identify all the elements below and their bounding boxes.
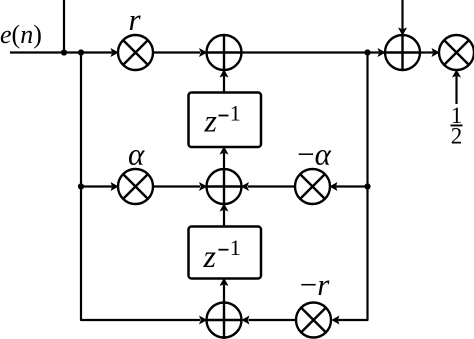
arrowhead into M5 from right: [331, 316, 339, 325]
svg-text:−α: −α: [297, 137, 331, 172]
arrowhead into A2 from left: [378, 48, 386, 57]
wire A1 to adder A2: [242, 51, 380, 53]
svg-text:1: 1: [230, 235, 241, 260]
wire delay box Z1 output up to A1: [223, 76, 225, 93]
junction dot on input line at top stub: [61, 49, 67, 55]
wire multiplier M4 to adder A3: [248, 185, 295, 187]
wire right feed vertical from top junction down to bottom row: [337, 53, 368, 321]
svg-text:z: z: [203, 238, 217, 274]
svg-text:−r: −r: [300, 267, 330, 302]
arrowhead into A4 from right: [241, 316, 249, 325]
adder A1: [207, 35, 242, 70]
junction dot on right feed at middle row: [364, 183, 370, 189]
multiplier M4 (gain -alpha): [295, 169, 330, 204]
wire right feed branch into multiplier M4: [336, 185, 368, 187]
value label z^-1 in delay box Z2: [203, 235, 241, 274]
wire 1/2 constant into M2 bottom: [455, 76, 457, 104]
wire left feed branch into multiplier M3: [81, 185, 112, 187]
delay box Z2 (z^-1 lower): [189, 227, 262, 279]
wire multiplier M5 to adder A4: [249, 319, 296, 321]
wire M1 to adder A1: [153, 51, 200, 53]
arrowhead into delay Z2 from bottom: [220, 278, 229, 286]
svg-text:2: 2: [451, 124, 463, 149]
arrowhead into M1: [111, 48, 119, 57]
wire vertical from top into A2: [401, 0, 403, 29]
delay box Z1 (z^-1 upper): [189, 93, 262, 148]
arrowhead into A3 from bottom (delay Z2 output): [220, 203, 229, 211]
arrowhead into A2 from top: [398, 28, 407, 36]
wire adder A4 output up to delay box Z2: [223, 285, 225, 303]
arrowhead into M4 from right: [329, 182, 337, 191]
value label z^-1 in delay box Z1: [204, 101, 241, 139]
arrowhead into A1 from bottom (delay Z1 output): [220, 69, 229, 77]
junction dot on top line at right feed: [364, 49, 370, 55]
wire A2 to multiplier M2: [421, 51, 434, 53]
adder A4: [207, 303, 242, 339]
wire adder A3 output up to delay box Z1: [223, 153, 225, 169]
svg-text:z: z: [204, 103, 218, 139]
multiplier M1 (gain r): [118, 35, 153, 70]
adder A2: [385, 35, 420, 70]
arrowhead into delay Z1 from bottom: [220, 146, 229, 154]
multiplier M5 (gain -r): [296, 303, 331, 338]
adder A3: [207, 169, 242, 204]
svg-text:1: 1: [230, 101, 241, 126]
arrowhead into A3 from left: [199, 182, 207, 191]
wire input horizontal e(n) to multiplier M1: [10, 51, 112, 53]
arrowhead into M2 from bottom: [452, 69, 461, 77]
arrowhead into A4 from left: [199, 316, 207, 325]
junction dot on left feed at middle row: [78, 183, 84, 189]
arrowhead into A3 from right: [241, 182, 249, 191]
arrowhead into A1 from left: [199, 48, 207, 57]
svg-text:α: α: [128, 137, 145, 172]
wire delay box Z2 output up to A3: [223, 210, 225, 227]
junction dot on input line at left feed: [78, 49, 84, 55]
wire left feed vertical from input junction down to bottom row: [81, 53, 200, 321]
arrowhead into M2 from left: [432, 48, 440, 57]
multiplier M3 (gain alpha): [118, 169, 153, 204]
wire top stub vertical into input line: [63, 0, 65, 53]
value label 1/2 fraction bar: [451, 125, 463, 127]
arrowhead into M3: [111, 182, 119, 191]
multiplier M2 (gain 1/2): [439, 35, 474, 70]
svg-text:r: r: [129, 2, 142, 37]
svg-text:e(n): e(n): [0, 20, 42, 49]
wire M3 to adder A3: [153, 185, 200, 187]
